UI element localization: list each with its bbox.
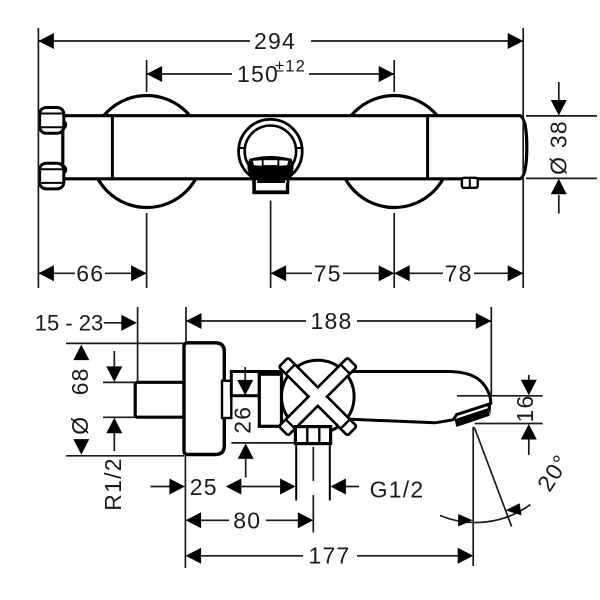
svg-text:75: 75 <box>314 261 342 287</box>
svg-text:150: 150 <box>237 61 279 87</box>
svg-text:±12: ±12 <box>275 58 306 76</box>
svg-text:177: 177 <box>309 543 351 569</box>
svg-text:294: 294 <box>254 28 296 54</box>
svg-text:80: 80 <box>233 507 261 533</box>
svg-text:R1/2: R1/2 <box>100 457 126 510</box>
svg-text:Ø 68: Ø 68 <box>67 367 93 434</box>
svg-text:78: 78 <box>445 261 473 287</box>
svg-text:15 - 23: 15 - 23 <box>35 311 104 336</box>
svg-text:26: 26 <box>230 406 256 434</box>
svg-text:25: 25 <box>190 474 218 500</box>
svg-text:Ø 38: Ø 38 <box>546 120 572 175</box>
svg-text:188: 188 <box>311 308 353 334</box>
svg-text:66: 66 <box>76 261 104 287</box>
svg-text:16: 16 <box>512 395 538 423</box>
svg-text:G1/2: G1/2 <box>370 477 425 503</box>
